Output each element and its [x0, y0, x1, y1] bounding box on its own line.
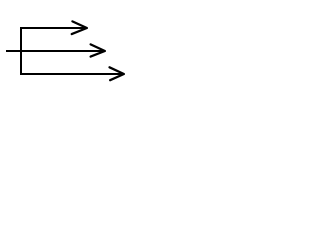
- wire middle arrow shaft: [6, 50, 105, 52]
- wire top arrow shaft: [20, 27, 87, 29]
- vertical line: [20, 27, 22, 75]
- wire bottom arrow shaft: [20, 73, 124, 75]
- top arrowhead: [72, 21, 87, 34]
- sketch of three right-pointing arrows fed from one vertical line: [0, 0, 132, 102]
- bottom arrowhead: [110, 67, 124, 80]
- background: [0, 0, 132, 102]
- middle arrowhead: [91, 44, 105, 56]
